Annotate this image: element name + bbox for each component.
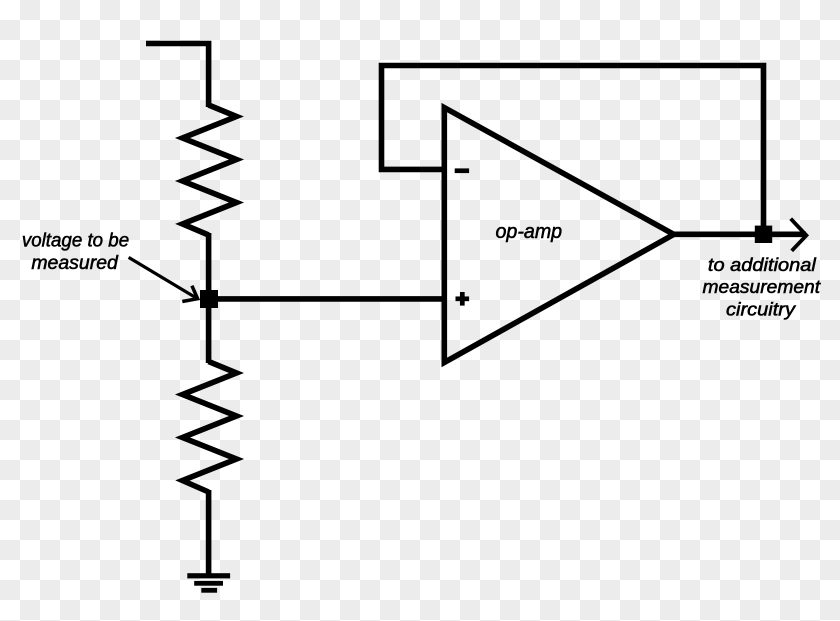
svg-text:measured: measured	[31, 252, 119, 274]
wire op-amp output	[673, 232, 806, 238]
wire R1 to node A	[206, 233, 212, 294]
wire node A to R2	[206, 304, 212, 363]
svg-text:to additional: to additional	[708, 254, 817, 275]
op-amp minus sign (pin label)	[455, 168, 469, 173]
annotation arrow (label to node A)	[129, 257, 198, 298]
svg-text:circuitry: circuitry	[726, 299, 797, 320]
op-amp plus sign (pin label)	[456, 296, 470, 301]
arrow head on output (to additional circuitry)	[791, 219, 807, 251]
svg-text:measurement: measurement	[703, 276, 821, 297]
node B (op-amp output junction)	[755, 226, 772, 243]
svg-text:op-amp: op-amp	[496, 221, 563, 243]
resistor R2	[183, 362, 237, 493]
wire feedback loop (output to inverting input)	[382, 66, 764, 232]
svg-text:voltage to be: voltage to be	[22, 230, 129, 252]
wire R2 to ground	[206, 490, 212, 574]
wire node A to op-amp + input	[206, 296, 444, 302]
wire top supply lead	[146, 44, 209, 108]
ground	[187, 573, 230, 578]
op-amp U1 triangle	[444, 108, 674, 363]
node A (voltage divider tap)	[200, 290, 218, 308]
resistor R1	[183, 105, 237, 235]
